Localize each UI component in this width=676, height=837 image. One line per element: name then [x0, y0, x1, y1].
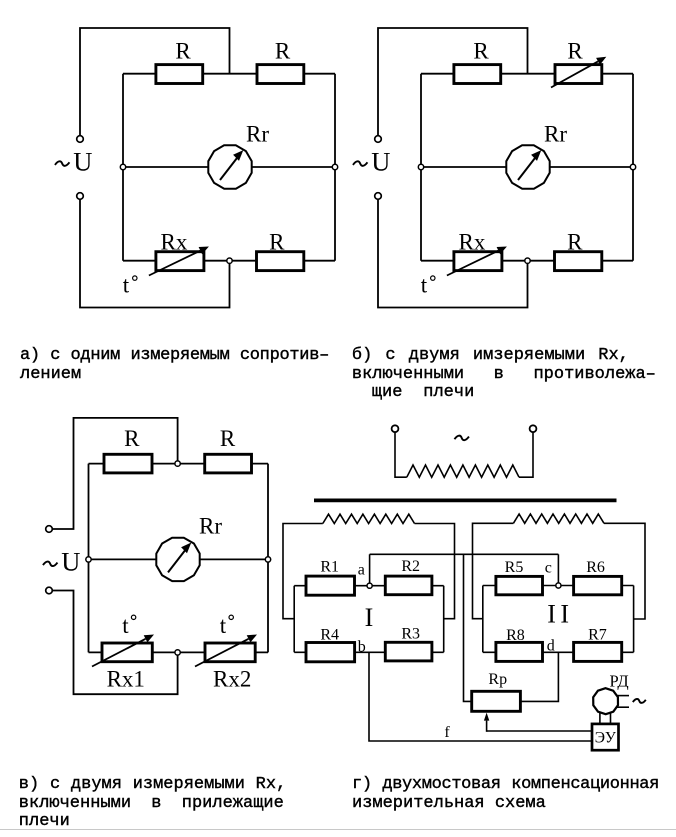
terminal bottom ~U circuit-b — [375, 193, 382, 200]
resistor R top-right circuit-a — [257, 65, 304, 84]
svg-text:R3: R3 — [401, 626, 420, 643]
junction bottom mid circuit-b — [525, 258, 530, 263]
label ~ motor — [633, 699, 646, 703]
wire secondary-right left lead — [473, 523, 514, 618]
wire bridge right rail circuit-a — [334, 74, 336, 261]
circuit a: bridge with one measured resistance — [55, 28, 338, 308]
terminal top ~U circuit-a — [77, 136, 84, 143]
galvanometer Rr circuit-a — [208, 145, 251, 188]
circuit b: bridge with two measured Rx in opposite arms — [353, 28, 636, 308]
resistor R2 — [385, 576, 432, 595]
resistor Rx bottom-left circuit-a — [156, 252, 204, 271]
motor RD circle — [593, 688, 618, 714]
wire bridge right rail circuit-v — [267, 464, 269, 653]
wire bridge-II left rail — [483, 586, 496, 653]
wire diagonal middle circuit-b — [421, 166, 633, 168]
resistor Rx1 circuit-v — [102, 643, 152, 662]
circuit v: bridge with two measured Rx in adjacent arms — [43, 418, 271, 694]
wire source-top circuit-v — [52, 418, 177, 529]
resistor Rx2 circuit-v — [205, 643, 255, 662]
svg-text:R7: R7 — [588, 626, 607, 643]
core transformer bar — [314, 498, 617, 502]
svg-text:R4: R4 — [320, 626, 339, 643]
wire bridge top rail circuit-v — [89, 463, 269, 465]
wire wiper to EU — [487, 730, 592, 732]
svg-text:c: c — [545, 559, 552, 576]
terminal top ~U circuit-v — [46, 526, 53, 533]
caption g — [352, 776, 659, 794]
wire bridge top rail circuit-a — [123, 73, 335, 75]
svg-text:U: U — [73, 147, 92, 177]
wire bridge right rail circuit-b — [632, 74, 634, 261]
wire node c horizontal — [543, 585, 574, 587]
wire node d down to Rp — [520, 652, 558, 701]
wire source-top circuit-b — [378, 28, 528, 136]
junction right mid circuit-a — [332, 164, 337, 169]
winding secondary right — [513, 514, 604, 523]
arrow variable Rx2 circuit-v — [195, 639, 249, 667]
wire primary right lead — [519, 432, 533, 477]
svg-text:R: R — [473, 39, 489, 64]
wire bridge-I left rail — [294, 586, 306, 653]
caption b — [352, 347, 629, 365]
galvanometer Rr circuit-v — [156, 538, 199, 581]
svg-text:t: t — [123, 273, 130, 298]
wire node d horizontal — [543, 651, 574, 653]
svg-text:t: t — [122, 613, 129, 638]
svg-text:R: R — [220, 426, 236, 451]
wire node b down to f — [369, 652, 592, 741]
svg-text:Rr: Rr — [199, 514, 222, 539]
svg-text:b: b — [358, 639, 366, 656]
node a junction — [367, 583, 372, 588]
svg-text:f: f — [444, 724, 450, 741]
wire bridge bottom rail circuit-b — [421, 260, 633, 262]
node c junction — [556, 583, 561, 588]
svg-text:t: t — [220, 613, 227, 638]
svg-text:R: R — [124, 426, 140, 451]
label ~U circuit-a — [55, 161, 69, 166]
resistor R bottom-right circuit-a — [257, 252, 304, 271]
svg-text:Rx2: Rx2 — [213, 666, 251, 691]
wire node a horizontal — [355, 585, 386, 587]
junction left mid circuit-v — [86, 557, 91, 562]
wire bridge left rail circuit-v — [88, 464, 90, 653]
junction right mid circuit-v — [265, 557, 270, 562]
svg-text:R: R — [175, 39, 191, 64]
wire source-bottom circuit-b — [378, 199, 528, 307]
resistor R bottom-right circuit-b — [555, 252, 602, 271]
wire motor link right — [610, 712, 612, 724]
wire secondary-left left lead — [283, 524, 323, 619]
svg-text:R: R — [275, 39, 291, 64]
separator line bottom — [0, 829, 676, 830]
circuit g: double-bridge compensation measuring circuit — [283, 425, 646, 750]
amplifier EU box — [592, 724, 619, 750]
wire bridge bottom rail circuit-v — [89, 651, 269, 653]
wire source-bottom circuit-a — [80, 199, 230, 307]
svg-text:R1: R1 — [320, 559, 339, 576]
junction left mid circuit-b — [418, 164, 423, 169]
resistor R right circuit-v — [205, 454, 252, 473]
potentiometer Rp — [472, 691, 521, 711]
wire to Rp left — [464, 554, 472, 701]
svg-text:t: t — [421, 273, 428, 298]
svg-text:R8: R8 — [506, 627, 525, 644]
svg-text:II: II — [547, 600, 573, 629]
svg-text:R5: R5 — [505, 559, 524, 576]
wire diagonal middle circuit-a — [123, 166, 335, 168]
wire primary left lead — [395, 432, 407, 477]
resistor R3 — [385, 642, 432, 661]
wire node a to node c — [370, 553, 559, 555]
winding secondary left — [323, 514, 415, 523]
junction top mid circuit-v — [175, 461, 180, 466]
svg-text:Rr: Rr — [246, 122, 269, 147]
svg-text:Rx: Rx — [161, 229, 188, 254]
resistor R7 — [574, 642, 622, 661]
galvanometer Rr circuit-b — [506, 145, 549, 188]
wire node c up — [557, 554, 559, 585]
svg-text:ЭУ: ЭУ — [595, 730, 616, 747]
arrow variable Rx1 circuit-v — [92, 639, 146, 667]
label ~U circuit-b — [353, 161, 368, 166]
resistor R4 — [306, 643, 355, 662]
svg-text:R: R — [269, 229, 285, 254]
svg-text:a: a — [358, 562, 365, 579]
label ~ primary — [454, 436, 469, 441]
label ~U circuit-v — [43, 562, 58, 567]
svg-text:R6: R6 — [586, 559, 605, 576]
arrow variable top-right R circuit-b — [551, 61, 598, 87]
wire motor supply bottom — [617, 706, 629, 708]
arrow variable Rx circuit-b — [447, 251, 498, 276]
terminal left transformer primary — [392, 425, 399, 432]
svg-text:Rx1: Rx1 — [107, 666, 145, 691]
resistor R top-right circuit-b — [555, 65, 602, 84]
svg-text:R2: R2 — [401, 558, 420, 575]
wire motor link left — [599, 713, 601, 724]
terminal top ~U circuit-b — [375, 136, 382, 143]
wire bridge-II right rail — [622, 586, 634, 653]
wire node a up — [369, 554, 371, 585]
resistor R1 — [306, 576, 355, 595]
arrow variable Rx circuit-a — [149, 251, 200, 276]
svg-text:R: R — [567, 229, 583, 254]
svg-text:d: d — [547, 637, 555, 654]
wire secondary-right right lead — [604, 523, 645, 619]
arrow Rp wiper — [486, 721, 488, 732]
svg-text:U: U — [61, 547, 80, 577]
winding transformer primary — [407, 465, 519, 477]
resistor R6 — [574, 576, 622, 594]
svg-text:I: I — [365, 603, 374, 632]
terminal bottom ~U circuit-a — [77, 193, 84, 200]
terminal bottom ~U circuit-v — [46, 587, 53, 594]
svg-text:Rx: Rx — [459, 229, 486, 254]
resistor R5 — [496, 576, 543, 594]
resistor R top-left circuit-b — [454, 65, 501, 84]
svg-text:Rp: Rp — [488, 671, 507, 688]
wire middle circuit-v — [89, 558, 269, 560]
caption v — [19, 776, 287, 794]
resistor R top-left circuit-a — [156, 65, 203, 84]
wire bridge left rail circuit-a — [122, 74, 124, 261]
junction left mid circuit-a — [120, 164, 125, 169]
resistor R left circuit-v — [104, 454, 152, 473]
wire secondary-left right lead — [415, 524, 455, 619]
resistor R8 — [496, 642, 543, 661]
terminal right transformer primary — [530, 425, 537, 432]
wire bridge bottom rail circuit-a — [123, 260, 335, 262]
resistor Rx bottom-left circuit-b — [454, 252, 502, 271]
svg-text:Rr: Rr — [544, 122, 567, 147]
wire source-top circuit-a — [80, 28, 230, 136]
wire source-bottom circuit-v — [52, 591, 177, 695]
svg-text:U: U — [371, 147, 390, 177]
wire motor supply top — [618, 695, 630, 697]
svg-text:РД: РД — [610, 672, 629, 691]
svg-text:R: R — [567, 39, 583, 64]
wire bridge-I right rail — [432, 586, 444, 653]
caption a — [20, 347, 329, 365]
wire bridge top rail circuit-b — [421, 73, 633, 75]
wire node b horizontal — [355, 651, 386, 653]
junction bottom mid circuit-a — [227, 258, 232, 263]
junction right mid circuit-b — [630, 164, 635, 169]
junction bottom mid circuit-v — [175, 650, 180, 655]
wire bridge left rail circuit-b — [420, 74, 422, 261]
